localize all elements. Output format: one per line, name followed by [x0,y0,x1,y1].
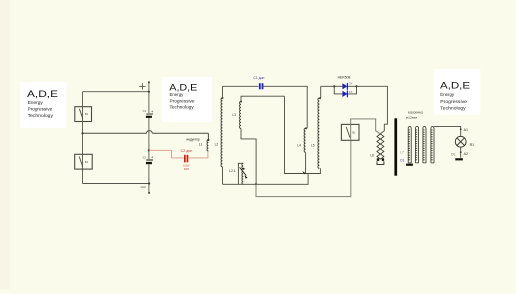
wire red resonant link [149,150,208,158]
svg-text:Energy: Energy [440,92,455,97]
svg-text:L6: L6 [370,153,374,157]
inductor L5 [311,86,321,168]
inductor L6 spring [370,134,384,165]
secondary winding column 2 [415,126,419,162]
inductor L4 [297,127,307,174]
svg-text:D5: D5 [349,90,353,94]
inductor L3 [232,96,284,128]
svg-text:Energy: Energy [170,92,185,97]
svg-text:C1 доп: C1 доп [253,76,264,80]
svg-text:В1: В1 [85,112,89,116]
svg-text:A,D,E: A,D,E [440,81,470,92]
svg-text:C1: C1 [143,109,147,113]
wire C1dop top link [223,86,308,128]
svg-text:C2: C2 [143,155,147,159]
wire bus drop to L1 [207,133,209,141]
svg-text:L2: L2 [215,142,219,146]
wire output to lamp [434,126,462,136]
svg-text:D1: D1 [400,158,404,162]
secondary winding column 1 [406,126,413,165]
svg-text:ø12мм: ø12мм [406,116,417,120]
svg-text:L4: L4 [297,144,301,148]
wire gray ground bus [256,140,351,196]
capacitor C2 [143,155,154,164]
svg-text:L3: L3 [232,113,236,117]
svg-text:L7: L7 [400,151,404,155]
svg-text:Technology: Technology [28,113,54,118]
wire bottom middle [223,174,309,186]
diode D4 HER508 [338,76,353,90]
inductor L2 primary [215,86,224,167]
inductor L2.1 variable [223,163,248,184]
switch B2 lower [75,154,93,169]
node diode left [333,85,335,87]
label core spec [406,111,424,120]
wire lamp ground stub [460,147,462,158]
inductor L1 [186,138,208,151]
capacitor C2dop red [181,149,193,171]
svg-text:Technology: Technology [440,105,466,110]
wire S1 top link [351,119,380,134]
svg-text:М3000НМ1: М3000НМ1 [408,111,423,115]
svg-text:В1: В1 [85,160,89,164]
svg-text:индуктор: индуктор [186,138,200,142]
ground bar under lamp [455,158,463,160]
svg-text:Energy: Energy [28,100,44,105]
capacitor C1dop blue [253,76,264,89]
svg-text:Progressive: Progressive [170,99,196,104]
svg-text:L5: L5 [311,144,315,148]
wire diode parallel branch [334,86,356,94]
svg-text:A,D,E: A,D,E [27,89,58,100]
diode D5 HER508 [342,90,352,97]
logo box left [20,82,67,128]
secondary winding column 3 [423,126,427,162]
svg-text:R1: R1 [470,143,475,147]
node capacitor midpoint [148,149,150,151]
wire diode net [321,86,388,134]
capacitor C1 [143,109,154,118]
ferrite core bar [394,118,397,175]
svg-text:L1: L1 [199,142,203,146]
svg-text:Progressive: Progressive [28,107,53,112]
node battery plus terminal [139,81,150,93]
svg-text:HER508: HER508 [338,76,351,80]
svg-text:В1: В1 [352,131,356,135]
svg-text:Technology: Technology [170,105,195,110]
svg-text:D4: D4 [349,82,353,86]
wire L3 bottom step [241,128,256,184]
svg-text:Progressive: Progressive [440,99,467,104]
logo box right [434,69,481,115]
wire main bus with hop [81,131,208,135]
wire capacitor rail [148,92,150,193]
svg-text:A2: A2 [464,152,468,156]
svg-text:L2.1: L2.1 [229,169,235,173]
switch B1 upper [75,107,92,122]
lamp R1 [455,136,466,147]
wire bottom-left return [83,182,151,194]
svg-text:D1: D1 [451,152,455,156]
svg-text:C2 доп: C2 доп [181,149,193,153]
logo box middle [162,77,212,122]
switch S1 right [341,124,359,140]
svg-text:630V: 630V [184,167,189,171]
wire top horizontal [83,91,149,93]
wire top-left rail [82,92,84,184]
secondary winding column 4 [431,126,435,162]
svg-text:A1: A1 [464,128,468,132]
node diode right [355,85,357,87]
wire right frame of middle block [285,96,321,173]
